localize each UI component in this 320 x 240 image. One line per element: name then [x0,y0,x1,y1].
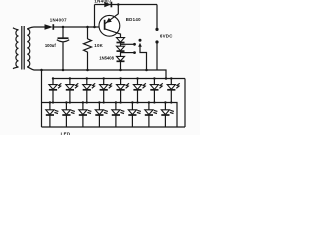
tap wire after D3 [121,43,135,45]
svg-text:1N4007: 1N4007 [50,17,67,22]
wire chain segment [120,43,122,47]
node emitter junction on top rail [117,3,120,6]
LED L6 [133,77,146,103]
LED L1 [49,77,62,103]
capacitor C1 bottom lead [62,42,64,70]
battery positive lead [156,5,158,29]
LED L8 [167,77,180,103]
wire right edge vertical [184,79,186,128]
transistor Q1 base bar [104,20,106,30]
LED L15 [145,101,158,127]
node capacitor junction [62,26,65,29]
wire top rail y4.5 [95,4,158,6]
selector arrow [138,43,146,70]
transistor Q1 BD140 circle [99,15,120,36]
node tap2 [133,51,136,54]
diode D5 1N5408 [117,56,125,61]
LED L4 [100,77,113,103]
transistor Q1 emitter with arrow [105,5,119,24]
LED L3 [83,77,96,103]
LED L12 [95,101,108,127]
wire chain bottom to lower rail [120,61,122,70]
node resistor on lower rail [86,69,89,72]
wire main rail y27 from diode to transistor base [53,26,104,28]
LED L9 [46,101,59,127]
node left drop junction [40,69,43,72]
transistor Q1 collector [105,29,121,38]
LED L10 [62,101,75,127]
wire lower rail y70 [38,69,157,71]
node chain on lower rail [119,69,122,72]
LED L7 [150,77,163,103]
node selector on lower rail [145,69,148,72]
svg-text:6VDC: 6VDC [160,33,173,38]
svg-text:1N5408: 1N5408 [99,56,114,61]
transformer T1 core [22,26,24,70]
transformer T1 secondary coil [27,29,30,67]
LED L2 [66,77,79,103]
svg-text:BD140: BD140 [126,17,141,22]
wire secondary top lead to rail [27,27,44,29]
wire battery feed to LED anode rail [157,70,166,79]
battery negative terminal [155,40,158,43]
wire chain segment [120,51,122,56]
wire LED middle rail y102.5 [42,103,178,128]
svg-text:LED: LED [61,131,71,135]
battery positive terminal [155,28,158,31]
LED L16 [161,101,174,127]
LED L14 [128,101,141,127]
wire riser from rail to top wire [94,5,96,28]
node resistor junction [86,26,89,29]
wire LED bottom rail y127 [42,126,186,128]
svg-text:100uf: 100uf [45,43,57,48]
diode D1 1N4007 [45,24,54,30]
LED L13 [112,101,125,127]
wire left drop from lower rail to bottom rail [41,70,43,127]
diode D3 1N5408 [117,38,125,43]
svg-text:10K: 10K [94,43,103,48]
LED L5 [117,77,130,103]
capacitor C1 plates [57,38,69,42]
wire LED anode rail y78.5 [53,78,186,80]
node riser junction [93,26,96,29]
node cap on lower rail [62,69,65,72]
battery negative lead [156,42,158,70]
resistor R1 10K leads and zigzag [84,27,92,70]
transformer T1 primary coil [13,28,19,69]
node tap1 [133,43,136,46]
capacitor C1 top lead [62,27,64,38]
svg-text:1N4007: 1N4007 [94,0,111,3]
diode D2 1N4007 (top) [104,2,111,8]
LED L11 [79,101,92,127]
selector terminal node [139,39,142,42]
diode D4 1N5408 [117,46,125,51]
tap wire after D4 [121,52,135,54]
wire secondary bottom lead to lower rail [27,67,38,70]
node feed on anode rail [165,77,168,80]
